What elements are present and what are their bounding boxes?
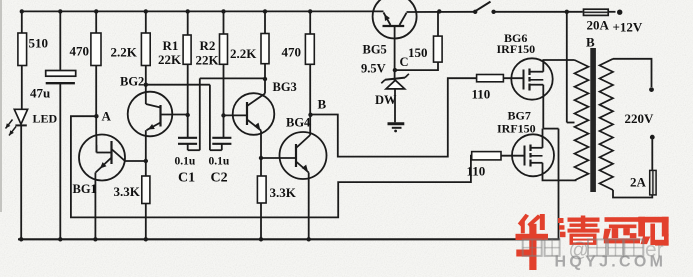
svg-text:470: 470 [282,45,302,60]
svg-text:BG2: BG2 [120,75,144,89]
svg-text:220V: 220V [625,111,655,126]
svg-text:110: 110 [467,164,486,179]
svg-text:B: B [318,97,327,112]
svg-text:110: 110 [472,87,491,102]
svg-text:IRF150: IRF150 [497,42,536,56]
svg-text:BG3: BG3 [273,80,297,94]
svg-text:IRF150: IRF150 [497,122,536,136]
svg-text:C2: C2 [211,171,228,186]
svg-text:2A: 2A [630,175,647,190]
svg-text:BG7: BG7 [508,109,531,123]
svg-text:0.1u: 0.1u [175,156,196,168]
svg-text:9.5V: 9.5V [361,62,386,76]
svg-text:R2: R2 [200,38,216,53]
svg-text:BG1: BG1 [73,182,97,196]
svg-text:BG5: BG5 [363,43,387,57]
svg-text:2.2K: 2.2K [230,46,257,61]
svg-text:BG4: BG4 [286,116,311,130]
svg-text:2.2K: 2.2K [111,45,138,60]
svg-text:3.3K: 3.3K [114,184,141,199]
svg-text:+12V: +12V [613,20,643,35]
svg-text:3.3K: 3.3K [270,185,297,200]
svg-text:20A: 20A [587,18,610,33]
svg-text:0.1u: 0.1u [209,156,230,168]
svg-text:B: B [586,35,595,50]
svg-text:150: 150 [408,45,428,60]
svg-text:R1: R1 [163,38,179,53]
svg-text:LED: LED [33,112,58,126]
svg-text:470: 470 [70,44,90,59]
svg-text:22K: 22K [196,53,220,68]
svg-text:47u: 47u [30,86,50,101]
svg-text:er: er [645,239,664,262]
svg-text:C: C [400,55,409,69]
svg-text:A: A [102,109,112,124]
svg-text:C1: C1 [178,171,195,186]
svg-text:510: 510 [29,36,49,51]
svg-text:@: @ [569,240,589,262]
svg-text:DW: DW [375,93,397,107]
svg-text:22K: 22K [158,52,182,67]
